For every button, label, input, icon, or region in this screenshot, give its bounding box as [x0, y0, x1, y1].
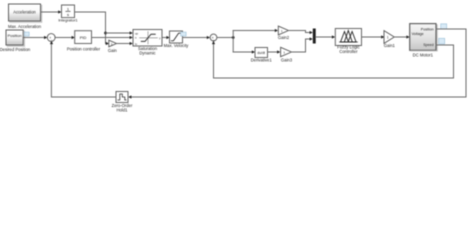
wire Mux to Fuzzy Logic Controller	[316, 35, 335, 38]
wire Integrator1 output to branch (max velocity limit)	[75, 12, 106, 44]
sum Sum1 (position error)	[47, 34, 55, 43]
wire upper branch to Gain2	[233, 29, 278, 32]
wire Gain1 to DC Motor1 Voltage input	[394, 35, 409, 38]
wire PID to Saturation Dynamic port u	[92, 36, 133, 39]
svg-text:Integrator1: Integrator1	[58, 17, 78, 22]
svg-text:Dynamic: Dynamic	[139, 50, 155, 55]
svg-text:Desired Position: Desired Position	[0, 47, 31, 52]
subsystem DC Motor1	[410, 24, 438, 58]
block Saturation Dynamic	[133, 30, 162, 56]
svg-text:Gain: Gain	[108, 48, 118, 53]
svg-text:Controller: Controller	[339, 49, 358, 54]
svg-text:Voltage: Voltage	[412, 32, 424, 36]
svg-text:Gain2: Gain2	[278, 35, 290, 40]
wire Max. Velocity to Sum2	[183, 36, 211, 39]
svg-text:DC Motor1: DC Motor1	[413, 52, 434, 57]
sum Sum2 (velocity error)	[210, 34, 217, 43]
svg-text:Speed: Speed	[423, 43, 433, 47]
svg-text:Position: Position	[7, 33, 21, 38]
controller PID: Position controller	[67, 31, 101, 52]
node branch dot on limit wire	[104, 32, 107, 35]
tag sample-time badge on Max. Velocity output	[181, 32, 186, 36]
svg-text:du/dt: du/dt	[257, 51, 265, 55]
svg-text:Hold1: Hold1	[117, 108, 129, 113]
tag sample-time badge on Position output	[24, 32, 29, 36]
gain Gain1	[384, 31, 396, 48]
gain Gain (negation for lower limit)	[108, 40, 118, 53]
svg-text:PID: PID	[80, 35, 87, 40]
wire Zero-Order Hold1 to Sum1 minus input	[50, 41, 116, 97]
wire Fuzzy Logic Controller to Gain1	[362, 35, 385, 38]
wire Position to Sum1	[23, 36, 47, 39]
wire Gain to Saturation Dynamic port lo	[117, 42, 133, 45]
wire Sum1 to PID	[55, 36, 75, 39]
block Fuzzy Logic Controller	[335, 29, 361, 54]
svg-text:Gain1: Gain1	[384, 43, 396, 48]
saturation block Max. Velocity	[164, 31, 190, 48]
wire Gain2 to Mux input 1	[289, 31, 313, 35]
svg-text:Gain3: Gain3	[281, 58, 293, 63]
tag sample-time badge on DC Motor1 Position output	[441, 24, 447, 29]
block Desired Position (constant subsystem)	[0, 30, 31, 52]
zero-order hold Zero-Order Hold1 (flipped)	[112, 92, 133, 113]
mux Mux	[313, 29, 316, 44]
wire Saturation Dynamic to Max. Velocity	[162, 36, 170, 39]
integrator U: Integrator1	[58, 5, 78, 22]
svg-text:Position controller: Position controller	[67, 47, 101, 52]
gain Gain2	[278, 26, 290, 40]
svg-text:Derivative1: Derivative1	[251, 58, 273, 63]
wire branch vertical	[232, 31, 234, 53]
wire Acceleration to Integrator1	[41, 10, 62, 13]
gain Gain3	[281, 47, 293, 62]
wire lower branch to Derivative1	[233, 50, 255, 53]
node branch dot after Sum2	[232, 36, 235, 39]
wire position feedback DC Motor1 to Zero-Order Hold1	[128, 29, 466, 99]
wire Derivative1 to Gain3	[268, 50, 281, 53]
svg-text:Max. Velocity: Max. Velocity	[164, 43, 190, 48]
derivative block Derivative1	[251, 48, 273, 63]
tag sample-time badge on DC Motor1 Speed output	[439, 38, 445, 44]
svg-text:1: 1	[387, 35, 389, 39]
block Max. Acceleration (constant subsystem)	[8, 4, 42, 29]
wire branch to Gain input	[106, 42, 110, 45]
wire Gain3 to Mux input 2	[292, 37, 313, 52]
wire branch to Saturation Dynamic port up	[106, 31, 133, 34]
svg-text:Max. Acceleration: Max. Acceleration	[8, 24, 42, 29]
svg-text:Acceleration: Acceleration	[13, 9, 36, 14]
wire speed feedback DC Motor1 to Sum2 minus input	[212, 41, 454, 78]
wire Sum2 to branch node	[217, 37, 233, 39]
